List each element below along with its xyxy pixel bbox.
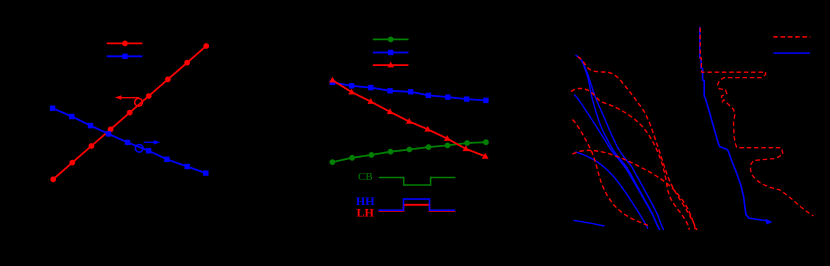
legend red entry xyxy=(373,62,409,68)
red band R3 xyxy=(573,150,696,230)
svg-text:CB: CB xyxy=(358,171,373,183)
blue data line with square markers xyxy=(330,80,489,103)
red band R2 xyxy=(571,88,689,229)
blue band B1a xyxy=(576,55,660,229)
LH band line (red) xyxy=(378,205,455,211)
legend blue entry xyxy=(107,54,143,59)
green data line with circle markers xyxy=(330,139,489,165)
legend blue entry xyxy=(373,50,409,55)
blue data line with square markers xyxy=(50,106,209,176)
legend red entry xyxy=(107,41,143,47)
blue right arrow xyxy=(144,140,161,145)
svg-text:LH: LH xyxy=(357,206,375,220)
blue DOS end arrow xyxy=(766,219,773,225)
red left arrow xyxy=(115,95,139,100)
HH band line (blue) xyxy=(378,199,455,210)
blue band B1b xyxy=(576,56,664,230)
blue DOS curve xyxy=(700,27,769,221)
blue band B4 xyxy=(574,220,605,226)
blue open circle annotation xyxy=(135,144,143,152)
red data line with triangle markers xyxy=(329,77,489,159)
legend blue solid xyxy=(773,52,810,54)
red data line with circle markers xyxy=(50,43,209,182)
red open circle annotation xyxy=(135,98,143,106)
CB band line xyxy=(379,178,456,186)
red DOS curve xyxy=(700,28,813,217)
blue band B2 xyxy=(574,95,660,231)
blue band B3 xyxy=(575,152,648,229)
legend green entry xyxy=(373,37,409,43)
red band R1 xyxy=(578,57,697,230)
red band Rmid xyxy=(573,120,651,227)
legend red dashed xyxy=(773,36,810,38)
